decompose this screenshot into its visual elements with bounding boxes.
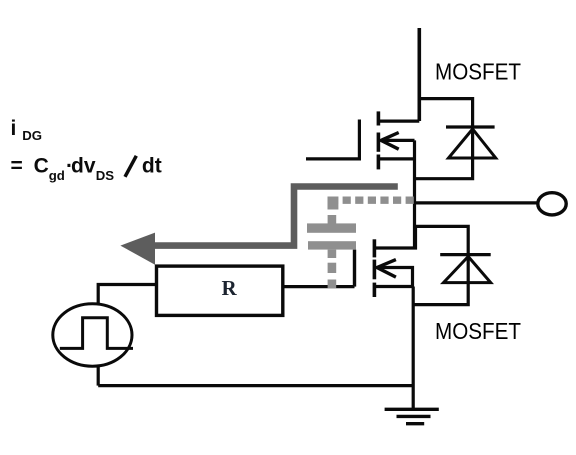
svg-text:=: =	[11, 154, 23, 177]
wire: upper MOSFET body connection with arrow	[381, 133, 415, 150]
formula text: i_DG	[11, 117, 42, 143]
wire: lower MOSFET drain connection	[374, 226, 415, 248]
wire: resistor right to lower MOSFET gate	[283, 285, 355, 288]
terminal: output circle	[538, 193, 566, 215]
svg-text:DS: DS	[96, 168, 115, 183]
svg-text:dt: dt	[142, 154, 162, 177]
svg-text:gd: gd	[49, 168, 65, 183]
capacitor Cgd dashed lead (below bottom plate to gate wire)	[328, 250, 337, 289]
label MOSFET (lower)	[435, 318, 521, 344]
capacitor Cgd top plate	[307, 223, 356, 232]
wire: pulse source top lead to resistor	[98, 285, 156, 305]
wire: upper MOSFET drain connection	[378, 119, 419, 122]
diode D1 (upper body diode) triangle	[449, 129, 496, 158]
pulse source V1 waveform	[60, 318, 133, 349]
wire: upper body-diode loop (drain to source)	[413, 99, 472, 179]
wire: phase node output line	[415, 201, 538, 204]
svg-text:i: i	[11, 117, 17, 140]
capacitor Cgd dashed lead (corner + vertical to top plate)	[328, 197, 339, 224]
gate bar of lower MOSFET	[353, 250, 356, 287]
wire: top drain lead of upper MOSFET	[417, 28, 421, 121]
capacitor Cgd bottom plate	[308, 241, 356, 249]
diode D2 (lower body diode) triangle	[444, 257, 491, 283]
svg-text:MOSFET: MOSFET	[435, 318, 521, 344]
diode D1 (upper body diode) cathode bar	[446, 125, 495, 128]
wire: bottom return from pulse source to ground node	[98, 384, 413, 387]
wire: pulse source bottom lead	[97, 366, 100, 386]
wire: lower MOSFET body connection with arrow	[377, 260, 413, 287]
formula text: = Cgd · dvDS / dt	[11, 154, 162, 183]
capacitor Cgd dashed lead (horizontal, from drain line)	[332, 196, 414, 203]
wire: upper source vertical down to phase node	[413, 140, 416, 248]
pulse source V1 circle	[53, 304, 132, 366]
svg-text:R: R	[222, 276, 238, 300]
svg-text:DG: DG	[22, 128, 42, 143]
ground symbol	[385, 409, 439, 423]
diode D2 (lower body diode) cathode bar	[440, 253, 491, 256]
svg-text:dv: dv	[71, 154, 96, 177]
channel bar of lower MOSFET (3 segments)	[373, 239, 377, 297]
gate lead and gate bar of upper MOSFET	[306, 120, 359, 159]
gray arrow: gate current path i_DG	[120, 187, 397, 265]
wire: lower MOSFET source connection	[374, 285, 413, 288]
resistor R value label	[222, 276, 238, 300]
wire: upper MOSFET source connection	[378, 157, 414, 160]
label MOSFET (upper)	[435, 59, 521, 85]
wire: lower body-diode loop	[414, 226, 468, 304]
svg-text:MOSFET: MOSFET	[435, 59, 521, 85]
resistor R box	[157, 266, 283, 315]
channel bar of upper MOSFET (3 segments)	[377, 111, 381, 169]
wire: lower source vertical down to ground	[412, 287, 415, 410]
svg-text:C: C	[34, 154, 49, 177]
